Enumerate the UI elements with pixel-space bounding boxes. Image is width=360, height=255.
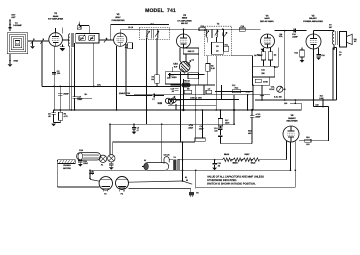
node T3 top <box>222 28 224 30</box>
coil T3 primary <box>206 29 209 37</box>
ground symbol antenna <box>8 64 13 67</box>
svg-text:1/2: 1/2 <box>216 49 219 52</box>
wire V2 grid drop <box>110 25 112 40</box>
svg-text:100K AT 40%: 100K AT 40% <box>190 97 202 100</box>
wire T2 primary drop <box>146 38 148 124</box>
core T1 <box>72 33 73 47</box>
svg-text:R11: R11 <box>225 43 228 46</box>
wire ground bus <box>54 109 301 111</box>
wire detector line <box>168 74 205 76</box>
trimmer capacitor C2 at V1 top <box>77 22 82 30</box>
svg-text:C13: C13 <box>214 127 217 130</box>
resistor R9 on y94.8 <box>206 87 212 93</box>
component cluster R5 <box>182 79 191 87</box>
svg-text:3-30MMF: 3-30MMF <box>13 24 22 27</box>
svg-text:400: 400 <box>248 132 251 135</box>
wire detector to V4 box <box>232 56 253 66</box>
label S2B <box>157 102 162 105</box>
svg-text:20MF: 20MF <box>188 126 194 129</box>
trimmer cap in T3 <box>222 32 227 36</box>
wire lamp feed <box>109 124 111 154</box>
wire V1 plate to T1 <box>62 39 69 41</box>
tube V3 <box>177 34 191 48</box>
label heater 6SA7 <box>244 153 250 156</box>
wire y124 <box>110 123 234 125</box>
capacitor C3 on cathode <box>52 70 61 75</box>
wire screen feed y98.3 <box>75 97 92 99</box>
label heater 6BD6 <box>232 161 238 164</box>
label 15-18 <box>128 26 133 29</box>
wire V1 top cap <box>56 28 63 34</box>
svg-text:150: 150 <box>284 102 287 105</box>
wire x90 to tube <box>90 179 99 181</box>
svg-text:C11: C11 <box>167 77 170 80</box>
transformer T5 output <box>332 31 337 47</box>
title MODEL 741 <box>145 8 176 14</box>
wire V5 screen drop <box>313 49 315 107</box>
wire seg y103.3 <box>290 100 301 104</box>
capacitor C7 osc <box>152 94 164 102</box>
tube socket A <box>99 177 112 196</box>
svg-text:6A 125: 6A 125 <box>164 154 170 157</box>
svg-text:6BD6: 6BD6 <box>182 17 188 20</box>
note text <box>207 176 264 186</box>
wire vertical x202.4 <box>202 109 204 138</box>
external antenna terminal <box>9 14 16 31</box>
wire x90 link <box>89 169 91 179</box>
transformer T3 shield box <box>205 23 232 56</box>
wire V6 pin drop c <box>294 141 296 187</box>
svg-text:R8: R8 <box>187 87 189 90</box>
wire box drop dark <box>252 84 254 110</box>
wire AVC bus <box>42 85 180 87</box>
label V4 <box>260 14 275 23</box>
wire fuse to T4 <box>169 159 173 161</box>
svg-text:15-18: 15-18 <box>128 26 133 29</box>
loop antenna L1 <box>7 33 28 54</box>
svg-text:6SA7: 6SA7 <box>244 153 250 156</box>
resistor R14 <box>214 109 230 144</box>
svg-text:DET-AF AMPL: DET-AF AMPL <box>260 20 275 23</box>
label B plus <box>85 93 88 96</box>
label R17 150K <box>319 94 324 100</box>
svg-text:S2B: S2B <box>157 102 162 105</box>
svg-text:CONVERTER: CONVERTER <box>111 19 125 22</box>
svg-text:.05: .05 <box>171 90 174 93</box>
svg-text:P1: P1 <box>104 192 106 195</box>
label R AV <box>119 92 131 95</box>
wire volume pot drop <box>284 31 286 50</box>
wire B plus feed vertical <box>334 48 336 101</box>
capacitor C4A <box>72 95 83 110</box>
resistor heater string <box>223 158 260 162</box>
svg-text:22MEG 470K: 22MEG 470K <box>119 92 131 95</box>
tube V6 <box>283 126 299 142</box>
resistor R8a below T3 <box>206 56 216 85</box>
wire gang top <box>185 54 187 61</box>
core T2 <box>152 29 153 38</box>
svg-text:470K: 470K <box>246 90 251 93</box>
wire V2 plate stub <box>120 29 122 33</box>
label AVC <box>97 83 101 86</box>
label C8A <box>173 62 178 68</box>
wire V6 pin drop a <box>285 141 287 160</box>
svg-text:6AV6: 6AV6 <box>264 17 270 20</box>
label V2 <box>111 13 125 22</box>
wire corner to P3 <box>190 189 192 192</box>
oscillator coil L2 <box>165 96 176 104</box>
wire V5 plate to output transformer <box>314 31 335 35</box>
resistor R12 <box>232 87 251 94</box>
capacitor C10 on V4 grid wire <box>239 25 245 31</box>
resistor R4 <box>54 110 69 123</box>
wire screen drop x60 <box>59 86 61 110</box>
wire x301 to ground bus <box>300 103 302 110</box>
capacitor C5 to ground <box>48 110 56 123</box>
label V5 <box>303 14 323 23</box>
svg-text:R16: R16 <box>294 52 297 55</box>
capacitor V1 cathode bypass <box>60 45 66 52</box>
svg-text:6BA6: 6BA6 <box>53 15 59 18</box>
box 455KC top <box>183 48 198 54</box>
svg-text:R17: R17 <box>320 94 323 97</box>
motor cylinder <box>142 159 169 170</box>
wire V4 plate to V5 grid <box>275 30 307 32</box>
svg-text:1M: 1M <box>274 53 277 56</box>
svg-text:150K: 150K <box>319 97 324 100</box>
wire motor feed <box>161 124 163 162</box>
trimmer capacitor C1 <box>9 22 23 29</box>
svg-text:47: 47 <box>137 129 139 132</box>
wire gang bottom to line <box>184 72 186 75</box>
wire V2 cathode drop <box>116 46 118 110</box>
wire seg y106.5 <box>314 106 329 108</box>
wire osc box top <box>172 67 174 72</box>
svg-text:+C14: +C14 <box>189 124 194 127</box>
node V3 plate stub <box>183 28 185 34</box>
svg-text:I-F AMPLIFIER: I-F AMPLIFIER <box>177 19 192 22</box>
wire phono left vertical <box>56 160 58 187</box>
label PHONO MOTOR <box>63 164 71 170</box>
svg-text:C15: C15 <box>321 54 324 57</box>
svg-text:567: 567 <box>329 26 332 29</box>
wire C8B down to AVC bus <box>41 41 43 86</box>
arrow on wire to V2 <box>104 38 107 42</box>
wire T1 secondary return <box>93 43 95 87</box>
capacitor C15 avc <box>171 88 179 93</box>
svg-text:R16: R16 <box>248 130 251 133</box>
capacitor C4A power <box>78 160 89 167</box>
svg-text:R-F AMPLIFIER: R-F AMPLIFIER <box>48 18 64 21</box>
wire T3 inner vertical <box>222 29 224 46</box>
wire top bus <box>121 28 261 30</box>
capacitor C4 screen <box>58 93 69 96</box>
resistor R3 grid <box>125 43 133 49</box>
node y124 junctions <box>109 123 235 125</box>
tuning capacitor C8B <box>40 39 44 44</box>
wire socket line bottom <box>129 188 191 190</box>
svg-text:CONT: CONT <box>269 88 275 91</box>
wire bottom left <box>57 186 99 188</box>
svg-text:40MF: 40MF <box>199 127 205 130</box>
wire vertical x247.6 <box>247 94 249 111</box>
label heater 50L6 <box>251 161 256 164</box>
resistor R8 on y94.8 <box>184 87 192 93</box>
svg-text:6BD6: 6BD6 <box>232 161 238 164</box>
box diode load <box>253 60 275 77</box>
wire mid y94.8 <box>134 94 270 96</box>
svg-text:GND: GND <box>14 60 19 63</box>
capacitor V5 cathode bypass <box>316 48 324 60</box>
arrow into gang <box>188 59 194 65</box>
svg-text:PHONO: PHONO <box>63 164 71 167</box>
resistor R13b under V4 <box>268 48 276 60</box>
pilot lamp P1 <box>99 155 106 166</box>
wire T4 to heater <box>178 159 215 161</box>
svg-text:20MF: 20MF <box>255 115 261 118</box>
box R15 <box>253 77 270 85</box>
svg-text:POWER AMPLIFIER: POWER AMPLIFIER <box>303 20 323 23</box>
svg-text:455 KC: 455 KC <box>188 50 195 53</box>
svg-text:R8: R8 <box>211 65 213 68</box>
potentiometer volume <box>269 86 285 93</box>
svg-text:AVC: AVC <box>97 83 101 86</box>
tuning gang C8A <box>179 61 190 72</box>
label 100K pot <box>190 97 202 100</box>
speaker <box>340 32 358 47</box>
wire T1 to V2 grid <box>99 39 114 41</box>
transformer T4 winding <box>173 156 179 171</box>
wire vertical x204 <box>203 85 205 95</box>
tube V4 <box>261 34 275 48</box>
node AVC junctions <box>53 86 117 88</box>
svg-text:455 KC: 455 KC <box>181 22 189 25</box>
box R7 oscillator <box>165 72 180 84</box>
thermal fuse loop <box>164 154 170 164</box>
wire V1 cathode drop <box>53 46 55 110</box>
wire V4 right pin drop <box>274 48 278 68</box>
label B plus output <box>329 23 333 29</box>
label C14 20MF <box>188 124 204 131</box>
svg-text:4.7K: 4.7K <box>64 115 69 118</box>
svg-text:.05MF: .05MF <box>63 93 69 96</box>
capacitor under P2 <box>109 162 114 170</box>
svg-text:S1: S1 <box>185 176 187 179</box>
plug P3 <box>189 191 199 197</box>
wire speaker frame vertical <box>333 48 342 100</box>
wire mid y91.5 <box>215 91 253 93</box>
wire osc box right vertical <box>179 72 181 143</box>
tube V1 <box>49 33 63 47</box>
wire T4 right vertical <box>182 141 184 181</box>
node coupling <box>294 30 296 32</box>
wire V6 plate line <box>299 140 329 142</box>
box T3 lower <box>212 42 224 54</box>
svg-text:1M: 1M <box>151 78 154 81</box>
svg-text:R18: R18 <box>306 136 309 139</box>
wire x323 link <box>322 100 324 107</box>
svg-text:C9: C9 <box>192 59 194 62</box>
wire vertical x183.4 <box>182 79 184 110</box>
svg-text:R5 1K: R5 1K <box>184 79 190 82</box>
svg-text:R17: R17 <box>225 119 228 122</box>
box lower V3 <box>188 73 199 79</box>
wire V3 cathode drop <box>180 48 182 63</box>
node B plus junctions <box>261 99 324 101</box>
ballast resistor cylinder <box>77 149 101 160</box>
phono jack hatched box <box>58 160 76 164</box>
coil T3 secondary <box>215 29 218 37</box>
wire output transformer drop <box>333 46 335 50</box>
label 150ohm a <box>284 102 287 105</box>
svg-text:R12: R12 <box>235 87 238 90</box>
svg-text:P3: P3 <box>196 191 198 194</box>
resistor R6 <box>151 74 159 86</box>
wire T2 secondary drop <box>156 38 158 74</box>
svg-text:SWITCH IS SHOWN IN RADIO POSIT: SWITCH IS SHOWN IN RADIO POSITION. <box>207 182 256 185</box>
wire x198 drop <box>197 54 199 85</box>
svg-text:MODEL 741: MODEL 741 <box>145 8 176 14</box>
wire y143.7 <box>220 143 252 145</box>
transformer T2 shield box <box>139 22 169 39</box>
wire B plus rail y100 <box>255 99 336 101</box>
label 150ohm b <box>315 103 318 106</box>
ground symbol main <box>51 124 56 127</box>
switch S1 <box>182 176 193 184</box>
svg-text:6SA7: 6SA7 <box>115 16 121 19</box>
label V6 <box>287 114 298 123</box>
wire mid y99.5 <box>168 99 239 101</box>
label heater 6BA6 <box>224 153 230 156</box>
svg-text:ANT: ANT <box>11 16 16 19</box>
wire heater line <box>214 159 287 161</box>
diode arrow under V4 <box>261 49 265 52</box>
wire osc coil to vertical <box>176 100 180 110</box>
node volume tap <box>284 30 286 32</box>
svg-text:VOL: VOL <box>271 86 275 89</box>
capacitor C6 47 <box>132 124 139 134</box>
svg-text:1.0: 1.0 <box>208 87 211 90</box>
box T1 trimmers <box>76 34 99 43</box>
wire V2 osc grid drop <box>125 46 127 96</box>
wire converter section top <box>111 24 170 26</box>
capacitor C14 coupling <box>292 29 298 39</box>
svg-text:P1: P1 <box>101 163 103 166</box>
trimmer C2A on antenna wire <box>31 39 35 46</box>
wire lamp feed b <box>112 142 114 155</box>
label V3 <box>177 14 192 25</box>
resistor R13a under V4 <box>257 48 266 60</box>
resistor R18 <box>305 136 311 146</box>
svg-text:35Z5GT: 35Z5GT <box>288 117 296 120</box>
coil T2 primary <box>146 30 150 38</box>
wire x194 vertical <box>195 169 197 188</box>
svg-text:C15: C15 <box>199 125 202 128</box>
wire osc feedback <box>126 95 153 97</box>
wire T1 coil end drop <box>69 48 71 111</box>
resistor R11 in T3 <box>224 43 229 51</box>
label C12 <box>232 84 235 87</box>
resistor R10 on bus <box>199 25 206 31</box>
svg-text:.02MF: .02MF <box>292 36 298 39</box>
svg-text:C12: C12 <box>232 84 235 87</box>
coil T2 secondary <box>155 30 159 38</box>
svg-text:20MF: 20MF <box>83 162 89 165</box>
jack box <box>195 138 205 141</box>
resistor V5 cathode <box>294 48 304 63</box>
tube V5 <box>306 34 321 49</box>
ground terminal GND <box>9 54 18 64</box>
svg-text:.05: .05 <box>217 165 220 168</box>
capacitor C on det line <box>167 73 171 80</box>
ground symbol C2A <box>30 46 35 49</box>
wire T1 return drop <box>70 48 72 111</box>
wire vertical x195.7 <box>195 85 197 138</box>
pilot lamp P2 <box>108 155 115 162</box>
svg-text:RECTIFIER: RECTIFIER <box>287 120 298 123</box>
capacitor heater bypass <box>212 160 221 171</box>
wire T3 coil drop <box>207 37 216 42</box>
node ground bus junctions <box>53 109 253 111</box>
tube socket B <box>116 177 129 196</box>
wire vertical x221.5 <box>221 85 223 100</box>
svg-text:150: 150 <box>306 143 309 146</box>
wire mid y84.9 <box>171 84 216 86</box>
svg-text:6BA6: 6BA6 <box>224 153 230 156</box>
wire bottom line y170.3 <box>90 169 291 171</box>
wire V6 pin drop b <box>290 142 292 171</box>
svg-text:50L6GT: 50L6GT <box>309 17 317 20</box>
svg-text:P2: P2 <box>121 192 123 195</box>
wire C2 to T1 box <box>79 26 89 34</box>
wire mid y105.8 <box>168 105 216 107</box>
label under V4 row <box>254 54 263 57</box>
wire socket line top <box>129 181 183 182</box>
wire rectifier output vertical <box>328 107 330 141</box>
svg-text:150: 150 <box>315 103 318 106</box>
svg-text:6.2C 40K: 6.2C 40K <box>274 96 283 99</box>
capacitor C13 <box>248 110 261 144</box>
tube V2 <box>114 33 127 46</box>
svg-text:1M .05MF: 1M .05MF <box>254 54 263 57</box>
label 150K left <box>260 94 265 97</box>
wire box to bus2 <box>261 85 263 100</box>
capacitor line filter <box>90 170 94 175</box>
wire pot vertical <box>284 50 286 100</box>
wire vertical x234.1 <box>233 95 235 124</box>
coil T1 primary <box>68 33 70 48</box>
svg-text:100: 100 <box>214 129 217 132</box>
wire bottom right return <box>196 186 295 188</box>
wire y142 <box>113 141 195 143</box>
svg-text:150K: 150K <box>260 94 265 97</box>
svg-text:C8A: C8A <box>173 62 178 65</box>
svg-text:MOTOR: MOTOR <box>63 167 71 170</box>
svg-text:470K: 470K <box>263 80 268 83</box>
label volume pot <box>279 33 284 38</box>
svg-text:1M: 1M <box>125 46 128 49</box>
core T3 <box>211 29 212 38</box>
wire T1 box drop <box>74 43 76 97</box>
wire vertical x216 <box>215 56 217 111</box>
wire antenna to V1 grid <box>28 40 49 42</box>
label 6.8 40K <box>274 96 283 99</box>
label V1 <box>48 12 64 21</box>
